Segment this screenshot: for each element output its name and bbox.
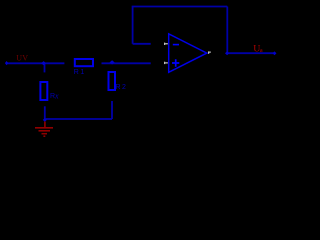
svg-text:R2: R2 <box>116 84 128 91</box>
svg-text:x: x <box>54 92 59 101</box>
svg-text:R1: R1 <box>74 69 86 76</box>
svg-text:UV: UV <box>16 54 28 63</box>
svg-text:a: a <box>260 47 263 54</box>
